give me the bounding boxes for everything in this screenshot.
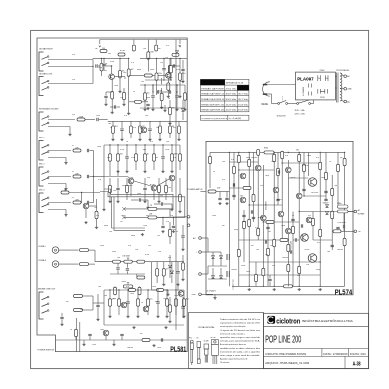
wire bbox=[201, 273, 208, 275]
power transistor Q3 bbox=[308, 254, 317, 263]
svg-text:0,22/5W: 0,22/5W bbox=[302, 165, 309, 167]
wire bbox=[65, 210, 67, 214]
mains plug REDE bbox=[263, 82, 270, 96]
svg-text:4C 1B8: 4C 1B8 bbox=[204, 341, 209, 343]
wire bbox=[103, 58, 105, 63]
transistor Q27 bbox=[296, 193, 302, 199]
resistor R13 bbox=[73, 147, 81, 152]
wire bbox=[114, 76, 125, 78]
wire bbox=[61, 320, 63, 324]
wire preamp out A bbox=[104, 189, 173, 209]
junction bbox=[126, 144, 127, 145]
wire bbox=[208, 251, 221, 253]
svg-text:4x 1N4007: 4x 1N4007 bbox=[207, 291, 216, 293]
svg-text:O ajuste de P2 deverá ser feit: O ajuste de P2 deverá ser feito nos bbox=[220, 329, 260, 332]
resistor R46 bbox=[138, 287, 141, 295]
connector terminal AC2 in bbox=[199, 251, 202, 254]
svg-text:33,9 Vdc: 33,9 Vdc bbox=[226, 99, 237, 101]
wire bbox=[103, 67, 105, 71]
resistor R22 bbox=[153, 154, 156, 162]
wire bbox=[208, 278, 227, 280]
capacitor C28 bbox=[172, 226, 175, 227]
capacitor C43 bbox=[232, 195, 235, 196]
capacitor C10 bbox=[139, 198, 140, 201]
wire bbox=[121, 337, 123, 341]
svg-text:DATA: 17/08/2000: DATA: 17/08/2000 bbox=[323, 353, 348, 356]
wire bbox=[101, 71, 103, 76]
capacitor C2 bbox=[175, 96, 178, 97]
ground bbox=[104, 103, 107, 106]
wire bbox=[48, 157, 66, 159]
resistor R8 bbox=[167, 83, 170, 91]
wire bbox=[182, 100, 184, 108]
supply arrow bbox=[155, 46, 157, 48]
svg-text:INDÚSTRIA ELETRÔNICA LTDA: INDÚSTRIA ELETRÔNICA LTDA bbox=[302, 320, 354, 323]
svg-text:100p: 100p bbox=[265, 175, 269, 177]
svg-text:A-38: A-38 bbox=[353, 361, 361, 367]
capacitor C15 bbox=[181, 307, 184, 308]
wire bbox=[287, 160, 289, 286]
junction bbox=[238, 169, 239, 170]
wire bbox=[226, 192, 228, 198]
wire mic1 bbox=[48, 150, 71, 152]
ground bbox=[248, 288, 251, 291]
svg-text:P10: P10 bbox=[189, 338, 192, 340]
wire bbox=[149, 131, 151, 138]
diode D7 1N4007 bbox=[220, 276, 223, 279]
svg-text:22u: 22u bbox=[157, 235, 160, 237]
wire bbox=[149, 121, 151, 128]
ground bbox=[136, 315, 139, 318]
junction bbox=[299, 152, 300, 153]
resistor R88 bbox=[331, 211, 334, 219]
svg-text:1M: 1M bbox=[102, 48, 105, 50]
transistor Q21 bbox=[240, 197, 246, 203]
wire bbox=[344, 152, 346, 286]
resistor R31 bbox=[61, 189, 69, 194]
wire bbox=[212, 252, 214, 256]
wire bbox=[269, 275, 271, 278]
wire bbox=[142, 101, 149, 103]
wire bbox=[288, 177, 308, 179]
svg-text:22u: 22u bbox=[150, 299, 153, 301]
capacitor C32b bbox=[114, 105, 115, 108]
transistor Q2 bbox=[166, 73, 172, 79]
svg-text:2M2: 2M2 bbox=[108, 123, 111, 125]
resistor R15 bbox=[159, 126, 162, 133]
resistor R50 bbox=[74, 295, 83, 298]
wire bbox=[142, 199, 149, 201]
potentiometer P1 bbox=[124, 258, 133, 263]
wire bbox=[169, 58, 171, 65]
wire bbox=[178, 121, 180, 126]
svg-text:1K2: 1K2 bbox=[297, 275, 300, 277]
power transistor Q1 bbox=[308, 178, 317, 187]
wire bbox=[89, 205, 97, 207]
resistor R19 bbox=[117, 154, 120, 162]
transistor Q32 bbox=[278, 211, 284, 217]
wire bbox=[85, 209, 87, 218]
junction bbox=[166, 289, 167, 290]
wire bbox=[273, 152, 275, 286]
ground bbox=[108, 200, 111, 203]
svg-text:100n: 100n bbox=[212, 215, 216, 217]
diode D1 bbox=[170, 271, 173, 274]
svg-text:10n: 10n bbox=[168, 187, 171, 189]
wire bbox=[229, 187, 249, 189]
wire bbox=[207, 238, 209, 252]
wire bbox=[176, 65, 181, 67]
wire bbox=[325, 152, 327, 200]
svg-text:2K7: 2K7 bbox=[120, 221, 123, 223]
wire bbox=[129, 101, 135, 103]
jack MIC 3 bbox=[39, 193, 49, 213]
ground bbox=[111, 111, 114, 114]
wire bbox=[124, 77, 126, 79]
transistor Q13 bbox=[103, 330, 109, 336]
svg-text:0,47: 0,47 bbox=[308, 215, 311, 217]
svg-text:terminais de saída, estando o: terminais de saída, estando o bbox=[220, 332, 245, 335]
wire bbox=[90, 202, 94, 204]
ground bbox=[116, 200, 119, 203]
ground bbox=[178, 210, 181, 213]
ground bbox=[182, 315, 185, 318]
wire bbox=[123, 88, 125, 92]
page frame bbox=[31, 30, 369, 368]
resistor R74 bbox=[237, 249, 240, 257]
capacitor C14 bbox=[181, 236, 184, 237]
PLA007 connector box bbox=[296, 72, 336, 100]
wire bbox=[144, 191, 146, 201]
svg-text:POWER SWITCH: POWER SWITCH bbox=[38, 349, 55, 351]
diode D1 bbox=[176, 51, 179, 54]
svg-text:BC549: BC549 bbox=[120, 50, 125, 52]
junction bbox=[288, 152, 289, 153]
capacitor C30b bbox=[126, 269, 129, 270]
resistor R52 bbox=[129, 289, 136, 292]
wire bbox=[121, 131, 123, 138]
ground bbox=[82, 343, 85, 346]
capacitor C44 bbox=[242, 215, 245, 216]
wire rail B bbox=[108, 120, 187, 122]
wire bbox=[171, 161, 173, 170]
wire bbox=[151, 262, 153, 290]
capacitor C32 bbox=[218, 198, 221, 199]
capacitor C24 bbox=[157, 90, 158, 93]
transistor Q8 bbox=[178, 291, 184, 297]
capacitor C25 bbox=[169, 90, 170, 93]
wire bbox=[105, 336, 107, 340]
svg-text:3K3: 3K3 bbox=[115, 126, 118, 128]
wire bbox=[343, 213, 345, 225]
wire bbox=[65, 158, 67, 162]
wire bbox=[105, 92, 107, 95]
svg-text:35,7 Vdc: 35,7 Vdc bbox=[238, 99, 248, 101]
svg-text:MIX/ME LINE OUT: MIX/ME LINE OUT bbox=[38, 289, 56, 291]
transistor Q20 bbox=[240, 173, 246, 179]
junction bbox=[179, 58, 180, 59]
capacitor C11 bbox=[156, 302, 159, 303]
svg-text:110V: 110V bbox=[320, 97, 325, 99]
RCA jack COMB R bbox=[52, 261, 78, 268]
capacitor C4 bbox=[148, 129, 151, 130]
capacitor C3 bbox=[146, 104, 149, 105]
wire bbox=[152, 98, 154, 108]
wire bbox=[130, 184, 132, 196]
ground bbox=[64, 214, 67, 217]
package drawing P2 plug bbox=[197, 342, 201, 364]
junction bbox=[320, 286, 321, 287]
svg-text:4K7: 4K7 bbox=[140, 333, 143, 335]
svg-text:5W60: 5W60 bbox=[337, 203, 341, 205]
wire bbox=[179, 145, 181, 154]
wire bbox=[147, 306, 149, 315]
wire bbox=[281, 152, 283, 240]
wire bbox=[170, 73, 172, 80]
wire bbox=[157, 179, 169, 186]
junction bbox=[156, 58, 157, 59]
wire bbox=[184, 85, 186, 93]
ground bbox=[181, 278, 184, 281]
resistor R103 bbox=[325, 172, 328, 180]
svg-text:35,7 Vdc: 35,7 Vdc bbox=[238, 94, 248, 96]
svg-text:BC549: BC549 bbox=[150, 184, 155, 186]
ground bbox=[146, 107, 149, 110]
wire bbox=[123, 100, 125, 103]
wire bbox=[153, 161, 155, 170]
wire bbox=[212, 258, 214, 266]
supply arrow bbox=[179, 46, 181, 48]
wire bbox=[209, 152, 211, 188]
capacitor C45 bbox=[252, 217, 255, 218]
svg-text:ciclotron: ciclotron bbox=[276, 316, 300, 325]
wire supply drop bbox=[133, 40, 135, 45]
wire bbox=[95, 261, 109, 263]
resistor R31 bbox=[109, 299, 112, 307]
svg-text:PLA007: PLA007 bbox=[297, 76, 314, 81]
wire bbox=[228, 152, 230, 286]
resistor R32 bbox=[95, 211, 98, 219]
jack GUITAR HIGH bbox=[39, 52, 49, 71]
junction bbox=[103, 58, 104, 59]
ground bbox=[183, 108, 186, 111]
wire bbox=[183, 306, 185, 315]
svg-text:4K7: 4K7 bbox=[222, 225, 225, 227]
svg-text:15,8 Vdc: 15,8 Vdc bbox=[238, 104, 248, 106]
jack MIC 2 bbox=[39, 167, 49, 186]
wire bbox=[169, 222, 171, 229]
junction bbox=[175, 289, 176, 290]
wire bbox=[89, 337, 91, 341]
resistor R24 bbox=[179, 154, 182, 162]
resistor R14 bbox=[139, 126, 142, 133]
wire bbox=[104, 176, 128, 178]
resistor R96 bbox=[243, 221, 246, 229]
svg-text:P2: P2 bbox=[197, 338, 199, 340]
wire bbox=[167, 90, 169, 95]
resistor R76 bbox=[248, 219, 251, 227]
transistor Q24 bbox=[273, 187, 279, 193]
wire bbox=[128, 58, 130, 69]
ground bbox=[118, 90, 121, 93]
wire bbox=[335, 87, 336, 89]
junction bbox=[101, 58, 102, 59]
wire bbox=[48, 183, 66, 185]
resistor R104 bbox=[337, 164, 340, 172]
ground bbox=[152, 344, 155, 347]
resistor R98 bbox=[267, 248, 270, 256]
wire bbox=[112, 133, 114, 138]
wire bbox=[114, 285, 116, 288]
svg-text:CORRENTE QUIESCENTE: CORRENTE QUIESCENTE bbox=[201, 118, 228, 120]
wire bbox=[135, 145, 137, 154]
resistor R94 bbox=[333, 230, 341, 233]
svg-text:4K7: 4K7 bbox=[146, 215, 149, 217]
resistor R78 bbox=[257, 228, 260, 236]
junction bbox=[135, 144, 136, 145]
junction bbox=[229, 152, 230, 153]
wire bbox=[269, 282, 271, 287]
resistor R36 bbox=[175, 299, 178, 307]
svg-text:4K7: 4K7 bbox=[340, 157, 343, 159]
ground bbox=[112, 343, 115, 346]
connector terminal OUT2 bbox=[187, 224, 190, 227]
svg-text:ARQUIVO: /POPLINE200_V1.CDR: ARQUIVO: /POPLINE200_V1.CDR bbox=[265, 362, 309, 365]
junction bbox=[111, 65, 112, 66]
capacitor C6 bbox=[87, 149, 88, 152]
svg-text:transistores de saída, com o a: transistores de saída, com o aparelho bbox=[220, 350, 260, 353]
diode D8 bbox=[326, 205, 329, 208]
junction bbox=[119, 58, 120, 59]
wire kbd2 bbox=[48, 126, 70, 128]
wire bbox=[341, 230, 354, 232]
wire bbox=[169, 133, 171, 138]
resistor R7 bbox=[160, 93, 163, 101]
jack GUITAR LOW bbox=[39, 77, 49, 96]
filter capacitor C30 bbox=[227, 254, 229, 260]
svg-text:2K2: 2K2 bbox=[173, 127, 176, 129]
wire bbox=[118, 306, 120, 315]
wire bbox=[164, 105, 166, 109]
wire bbox=[267, 93, 271, 95]
resistor R51 bbox=[74, 309, 83, 312]
wire bbox=[161, 78, 163, 84]
svg-text:TW: TW bbox=[358, 231, 361, 233]
svg-text:220V: 220V bbox=[320, 70, 326, 72]
resistor R99 bbox=[277, 168, 280, 176]
ground bbox=[172, 230, 175, 233]
wire bbox=[343, 228, 345, 231]
resistor R4 bbox=[127, 69, 130, 77]
wire to AT bbox=[348, 211, 354, 213]
wire kbd bbox=[48, 119, 75, 121]
wire bbox=[75, 337, 77, 340]
svg-text:470u: 470u bbox=[176, 69, 180, 71]
wire bbox=[169, 297, 171, 305]
wire bbox=[156, 80, 158, 95]
wire bbox=[233, 152, 235, 200]
ground bbox=[146, 206, 149, 209]
wire bbox=[94, 176, 105, 178]
resistor R72 bbox=[208, 190, 216, 193]
wire bbox=[201, 293, 213, 295]
svg-text:2K2: 2K2 bbox=[296, 150, 299, 152]
wire bbox=[69, 192, 100, 194]
capacitor C8 bbox=[143, 188, 146, 189]
filter capacitor C31 bbox=[227, 271, 229, 277]
ground bbox=[158, 138, 161, 141]
svg-text:220K: 220K bbox=[79, 116, 84, 118]
PLA007 110V link pins bbox=[318, 89, 328, 94]
wire bbox=[342, 75, 344, 77]
input x mark 2 bbox=[122, 216, 126, 220]
wire bbox=[267, 222, 269, 286]
wire bbox=[134, 181, 151, 186]
wire bbox=[159, 121, 161, 126]
wire bbox=[166, 290, 168, 299]
junction bbox=[144, 144, 145, 145]
junction bbox=[249, 152, 250, 153]
wire bottom bus bbox=[56, 339, 188, 341]
title block row lines bbox=[264, 326, 369, 368]
svg-text:A corrente quiescente deve ser: A corrente quiescente deve ser bbox=[220, 343, 246, 346]
resistor R62 bbox=[132, 45, 135, 51]
svg-text:PL574: PL574 bbox=[335, 289, 353, 296]
wire bbox=[201, 237, 208, 239]
svg-text:P2: P2 bbox=[72, 171, 74, 173]
ground bbox=[64, 188, 67, 191]
junction bbox=[303, 195, 304, 196]
wire bbox=[249, 261, 320, 263]
wire row A lower bus bbox=[140, 84, 185, 86]
resistor R97 bbox=[252, 194, 255, 202]
resistor R75 bbox=[248, 159, 251, 167]
svg-text:1N4148: 1N4148 bbox=[282, 257, 288, 259]
svg-text:33,9 Vdc: 33,9 Vdc bbox=[226, 94, 237, 96]
resistor R21 bbox=[144, 154, 147, 162]
capacitor C41 bbox=[336, 227, 339, 228]
junction bbox=[148, 58, 149, 59]
ground bbox=[68, 133, 71, 136]
wire bbox=[170, 58, 172, 65]
capacitor C48 bbox=[291, 219, 294, 220]
svg-text:P10: P10 bbox=[72, 54, 75, 56]
capacitor C8 bbox=[87, 201, 88, 204]
ground bbox=[60, 323, 63, 326]
wire bbox=[288, 103, 297, 105]
svg-text:1N4007: 1N4007 bbox=[323, 202, 329, 204]
junction bbox=[274, 286, 275, 287]
resistor R25 bbox=[109, 185, 112, 193]
wire bbox=[239, 239, 288, 241]
wire bbox=[152, 261, 184, 263]
wire bbox=[105, 99, 107, 103]
resistor R86 bbox=[319, 229, 322, 237]
resistor R87 bbox=[331, 188, 334, 196]
junction bbox=[344, 152, 345, 153]
wire rail 162 bbox=[229, 161, 258, 163]
ground bbox=[225, 202, 228, 205]
capacitor C37 bbox=[278, 170, 279, 173]
svg-text:220u: 220u bbox=[174, 295, 178, 297]
ground bbox=[102, 208, 105, 211]
svg-text:47u: 47u bbox=[166, 45, 169, 47]
wire bbox=[128, 76, 130, 87]
wire bbox=[119, 78, 121, 90]
wire bbox=[249, 204, 282, 206]
ground bbox=[160, 106, 163, 109]
spec table quiescent row bbox=[200, 115, 249, 120]
